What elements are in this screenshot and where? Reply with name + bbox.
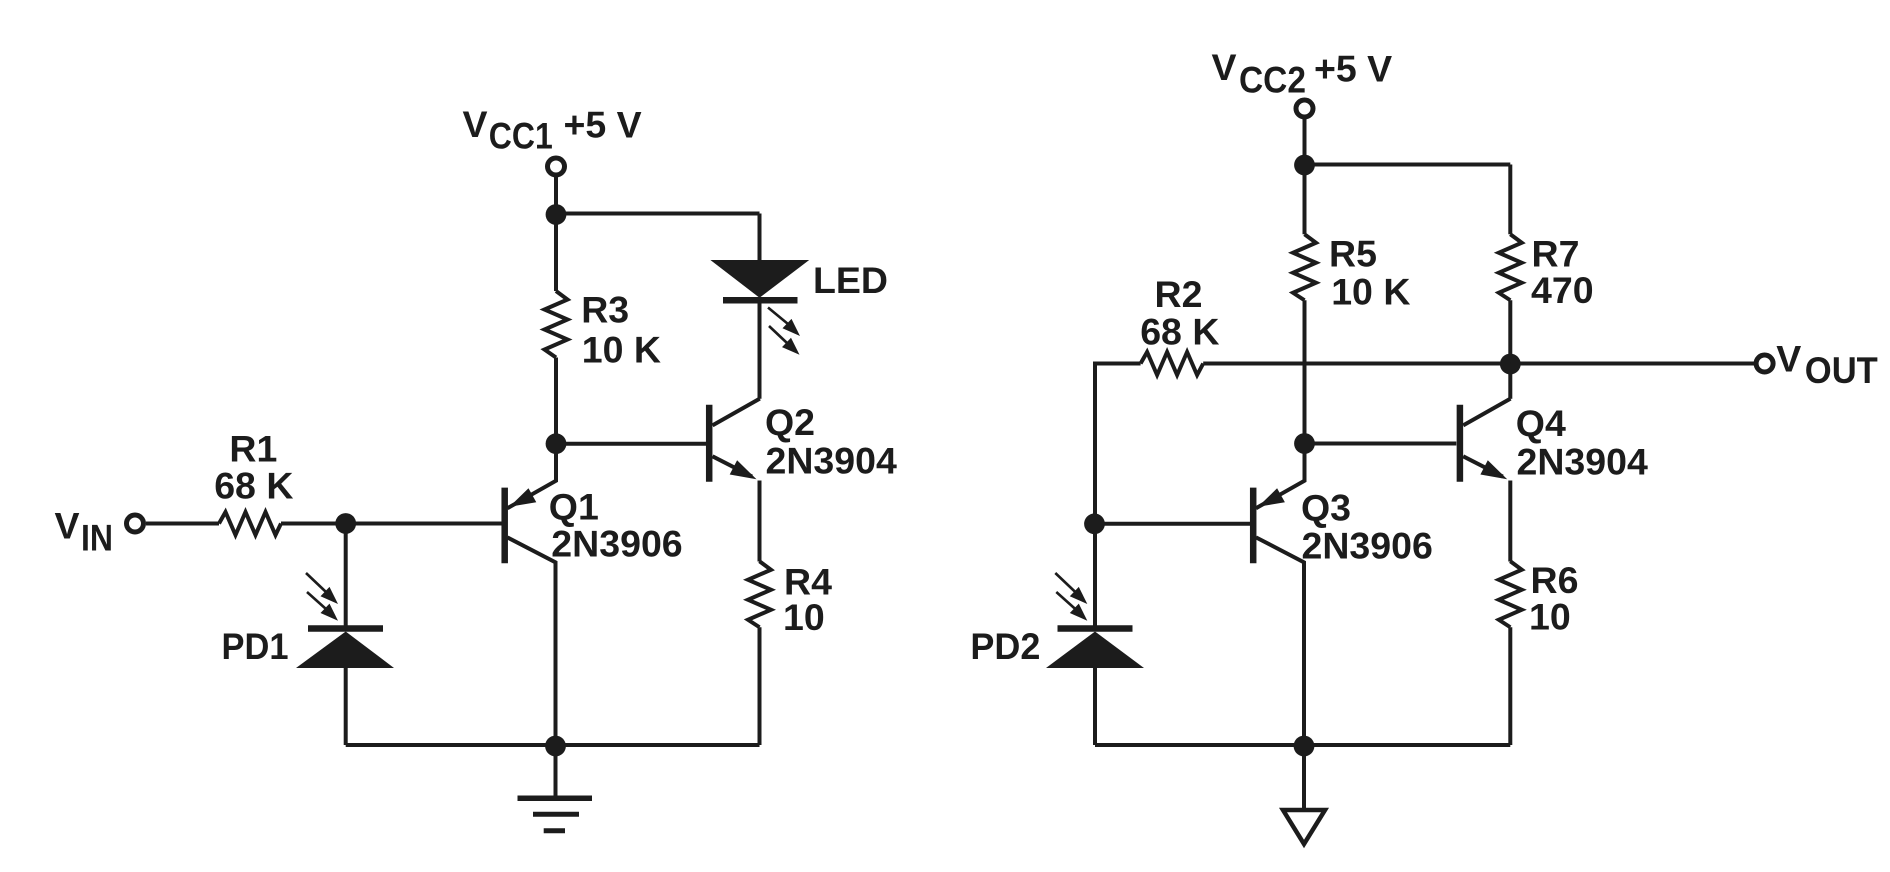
wire VCC2 node to R5 (1303, 165, 1307, 234)
label R6 value (1529, 559, 1578, 638)
svg-text:R3: R3 (581, 289, 629, 331)
ground (right circuit, arrow style) (1283, 810, 1325, 844)
resistor R4 (748, 561, 771, 627)
wire VOUT node to terminal (1510, 362, 1755, 366)
wire R7 from top rail (1508, 165, 1512, 235)
label Q1 (549, 486, 683, 565)
svg-text:470: 470 (1531, 269, 1594, 311)
node VIN terminal (127, 515, 144, 532)
wire node B to Q2 base (556, 442, 706, 446)
label R7 value (1531, 233, 1594, 311)
wire VIN to R1 (146, 522, 219, 526)
wire VCC2 to junction (1303, 118, 1307, 156)
svg-text:Q4: Q4 (1516, 402, 1566, 444)
resistor R2 (1141, 352, 1204, 375)
transistor Q2 (NPN 2N3904) (709, 399, 760, 482)
junction VCC2 node (1294, 155, 1315, 176)
LED light arrow 2 (769, 326, 800, 355)
wire R4 to bottom rail (758, 627, 762, 745)
wire node A to PD1 (344, 524, 348, 626)
svg-text:V: V (463, 103, 488, 145)
svg-text:2N3904: 2N3904 (1517, 441, 1649, 483)
photodiode PD1 (296, 629, 394, 669)
svg-text:10 K: 10 K (1331, 271, 1410, 313)
wire to ground arrow (1302, 746, 1306, 809)
svg-text:10: 10 (1529, 596, 1571, 638)
wire VCC1 to junction (554, 175, 558, 206)
junction node A (R1/PD1) (335, 513, 356, 534)
junction bottom node left (545, 736, 566, 757)
svg-text:V: V (1776, 338, 1801, 380)
PD2 light arrow 2 (1056, 592, 1087, 621)
svg-text:PD1: PD1 (222, 625, 289, 667)
PD1 light arrow 1 (306, 573, 338, 604)
wire PD1 to ground rail (344, 668, 348, 745)
wire Q4 collector to VOUT node (1508, 364, 1512, 399)
svg-text:2N3904: 2N3904 (766, 440, 898, 482)
svg-text:10 K: 10 K (582, 329, 661, 371)
wire Q4 emitter to R6 (1508, 481, 1512, 562)
svg-text:CC2: CC2 (1239, 60, 1306, 101)
svg-text:V: V (1212, 46, 1237, 88)
junction VOUT node (1500, 354, 1521, 375)
wire R1 to Q1 base (281, 522, 502, 526)
junction node C (R5/Q3/Q4 base) (1294, 433, 1315, 454)
wire VCC1 node to R3 (554, 214, 558, 291)
svg-text:Q2: Q2 (765, 401, 815, 443)
svg-text:68 K: 68 K (1140, 310, 1219, 352)
wire R2 to VOUT node (1203, 362, 1510, 366)
resistor R1 (219, 512, 281, 535)
svg-text:Q1: Q1 (549, 486, 599, 528)
resistor R7 (1499, 234, 1522, 300)
junction VCC1 node (546, 204, 567, 225)
resistor R3 (545, 291, 568, 358)
svg-text:+5 V: +5 V (564, 104, 642, 146)
label R5 value (1329, 232, 1410, 312)
label R1 value (214, 427, 293, 506)
svg-text:+5 V: +5 V (1314, 48, 1392, 90)
junction node D (Q3 base/PD2) (1084, 513, 1105, 534)
wire Q2 emitter to R4 (758, 481, 762, 562)
junction bottom node right (1294, 736, 1315, 757)
label VOUT (1776, 338, 1878, 392)
node VOUT terminal (1756, 355, 1773, 372)
svg-text:V: V (55, 504, 80, 546)
svg-text:R5: R5 (1329, 232, 1377, 274)
junction node B (R3/Q1/Q2 base) (546, 433, 567, 454)
wire top rail right circuit (1305, 163, 1511, 167)
label VCC1 (463, 103, 642, 157)
wire R6 to bottom rail (1508, 627, 1512, 745)
wire node D to Q3 base (1095, 522, 1250, 526)
node VCC1 terminal (548, 158, 565, 175)
svg-text:2N3906: 2N3906 (1302, 525, 1433, 567)
wire LED top from rail (758, 214, 762, 261)
label Q2 (765, 401, 897, 482)
ground (left circuit) (518, 798, 593, 830)
wire R7 to VOUT node (1508, 300, 1512, 364)
wire node C to Q4 base (1305, 442, 1457, 446)
transistor Q3 (PNP 2N3906) (1253, 453, 1304, 745)
svg-text:IN: IN (81, 518, 113, 559)
diode LED (710, 260, 809, 300)
svg-text:PD2: PD2 (970, 625, 1040, 667)
svg-text:R2: R2 (1155, 273, 1203, 315)
svg-text:Q3: Q3 (1301, 487, 1351, 529)
PD2 light arrow 1 (1055, 573, 1087, 604)
wire to ground symbol (554, 746, 558, 796)
label VIN (55, 504, 114, 558)
label R3 value (581, 289, 661, 371)
PD1 light arrow 2 (307, 592, 338, 621)
svg-text:2N3906: 2N3906 (551, 523, 682, 565)
label VCC2 (1212, 46, 1393, 101)
node VCC2 terminal (1296, 100, 1313, 117)
svg-text:OUT: OUT (1805, 350, 1878, 391)
label Q3 (1301, 487, 1433, 567)
svg-text:LED: LED (813, 259, 888, 301)
svg-text:R1: R1 (229, 427, 277, 469)
transistor Q1 (PNP 2N3906) (505, 453, 556, 745)
transistor Q4 (NPN 2N3904) (1460, 399, 1511, 482)
svg-text:10: 10 (783, 596, 825, 638)
wire LED to Q2 collector (758, 304, 762, 399)
svg-text:CC1: CC1 (489, 116, 553, 157)
wire R5 to node C (1303, 300, 1307, 434)
LED light arrow 1 (768, 308, 800, 337)
wire bottom rail left circuit (346, 743, 760, 747)
wire R3 to node B (554, 358, 558, 435)
label R2 value (1140, 273, 1219, 352)
label R4 value (783, 561, 832, 639)
wire top rail to LED branch (556, 212, 760, 216)
wire node D to PD2 (1093, 524, 1097, 626)
photodiode PD2 (1046, 629, 1144, 669)
wire bottom rail right circuit (1095, 743, 1510, 747)
label Q4 (1516, 402, 1648, 483)
wire PD2 to bottom rail (1093, 668, 1097, 745)
resistor R5 (1293, 234, 1316, 300)
svg-text:68 K: 68 K (214, 464, 293, 506)
resistor R6 (1499, 561, 1522, 627)
wire R2 feedback from left branch (1095, 364, 1141, 524)
